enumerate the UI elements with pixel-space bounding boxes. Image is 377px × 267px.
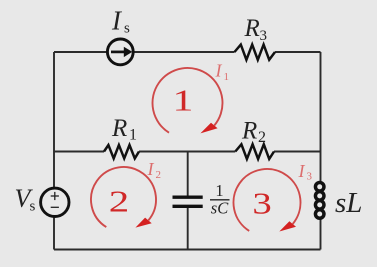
svg-text:2: 2 [109,184,129,218]
svg-text:s: s [124,21,130,37]
svg-text:1: 1 [224,71,230,83]
svg-text:2: 2 [258,129,266,146]
svg-text:3: 3 [307,171,313,183]
svg-text:I: I [111,6,123,36]
svg-text:sC: sC [211,199,229,218]
svg-text:I: I [147,159,155,179]
svg-text:2: 2 [156,169,162,181]
svg-text:1: 1 [129,127,137,144]
svg-text:s: s [30,199,36,215]
svg-text:1: 1 [215,181,223,200]
svg-text:R: R [111,115,127,142]
svg-text:1: 1 [173,83,194,118]
svg-text:3: 3 [260,28,268,44]
svg-text:I: I [215,61,223,81]
svg-text:sL: sL [335,187,362,219]
svg-text:I: I [298,161,306,181]
svg-text:3: 3 [252,186,271,220]
svg-text:R: R [241,118,257,145]
svg-text:R: R [244,15,260,42]
